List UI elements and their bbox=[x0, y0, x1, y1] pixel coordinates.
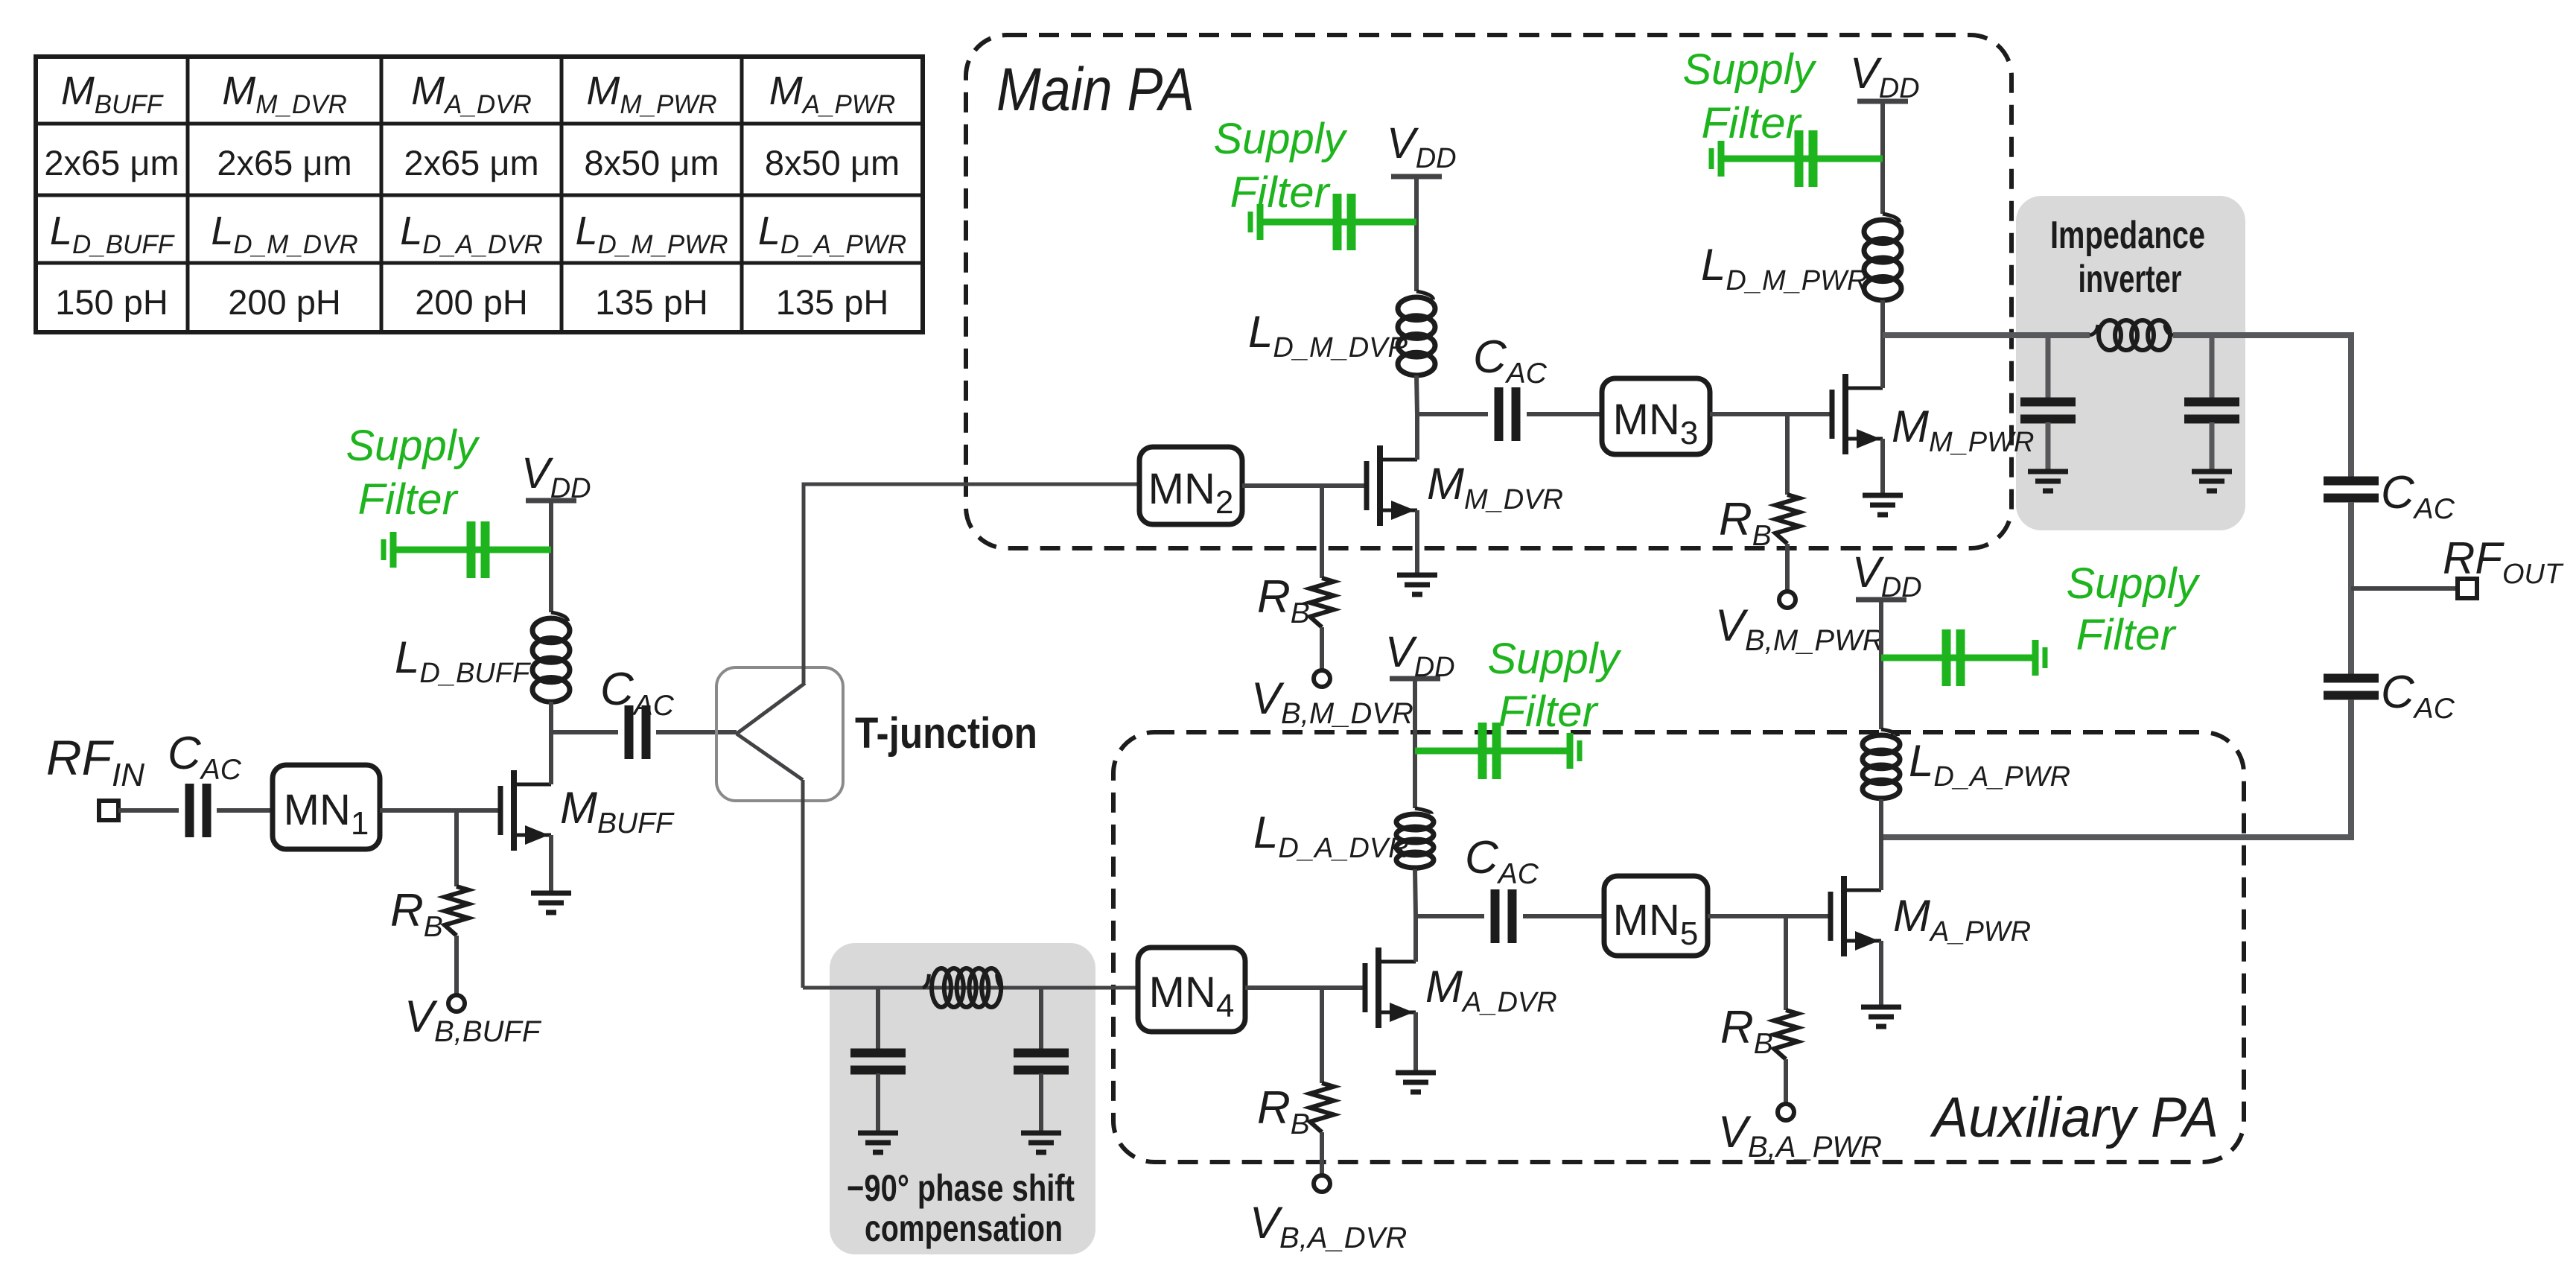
svg-text:RB: RB bbox=[1257, 1082, 1310, 1140]
svg-text:CAC: CAC bbox=[2381, 467, 2455, 525]
svg-text:200 pH: 200 pH bbox=[228, 282, 341, 322]
svg-text:T-junction: T-junction bbox=[855, 709, 1037, 758]
svg-text:Auxiliary PA: Auxiliary PA bbox=[1930, 1086, 2219, 1149]
svg-text:MA_PWR: MA_PWR bbox=[1893, 891, 2031, 948]
svg-text:Filter: Filter bbox=[358, 475, 459, 524]
svg-text:VB,A_PWR: VB,A_PWR bbox=[1718, 1107, 1882, 1164]
svg-text:VB,M_DVR: VB,M_DVR bbox=[1251, 673, 1413, 730]
svg-text:RB: RB bbox=[1719, 494, 1772, 552]
svg-text:200 pH: 200 pH bbox=[415, 282, 528, 322]
svg-text:VDD: VDD bbox=[1387, 119, 1457, 174]
svg-text:Supply: Supply bbox=[1214, 115, 1348, 163]
svg-text:Supply: Supply bbox=[346, 422, 480, 470]
svg-text:RB: RB bbox=[1720, 1002, 1773, 1060]
svg-text:8x50 μm: 8x50 μm bbox=[765, 143, 900, 182]
svg-text:LD_A_PWR: LD_A_PWR bbox=[1909, 736, 2070, 793]
svg-text:MBUFF: MBUFF bbox=[560, 783, 675, 839]
svg-text:RB: RB bbox=[390, 885, 443, 943]
svg-text:inverter: inverter bbox=[2079, 258, 2182, 301]
svg-text:MA_DVR: MA_DVR bbox=[1425, 962, 1557, 1018]
svg-text:Filter: Filter bbox=[1230, 168, 1332, 217]
svg-text:RFIN: RFIN bbox=[46, 730, 144, 793]
svg-text:−90° phase shift: −90° phase shift bbox=[847, 1167, 1075, 1209]
svg-text:135 pH: 135 pH bbox=[595, 282, 708, 322]
svg-text:8x50 μm: 8x50 μm bbox=[584, 143, 719, 182]
svg-text:VDD: VDD bbox=[521, 449, 591, 504]
svg-text:CAC: CAC bbox=[1473, 331, 1548, 390]
svg-text:LD_BUFF: LD_BUFF bbox=[395, 632, 531, 689]
svg-text:VB,BUFF: VB,BUFF bbox=[404, 991, 542, 1048]
svg-text:compensation: compensation bbox=[865, 1207, 1063, 1249]
svg-text:Filter: Filter bbox=[1498, 688, 1600, 736]
svg-text:VB,A_DVR: VB,A_DVR bbox=[1250, 1198, 1407, 1254]
svg-text:Supply: Supply bbox=[2067, 559, 2201, 608]
svg-text:VDD: VDD bbox=[1852, 548, 1922, 603]
svg-text:RB: RB bbox=[1257, 571, 1310, 629]
svg-text:VDD: VDD bbox=[1385, 628, 1455, 683]
svg-text:Supply: Supply bbox=[1488, 635, 1622, 683]
svg-text:Impedance: Impedance bbox=[2050, 214, 2205, 257]
svg-text:2x65 μm: 2x65 μm bbox=[217, 143, 352, 182]
svg-text:LD_M_DVR: LD_M_DVR bbox=[1248, 307, 1408, 364]
svg-text:Filter: Filter bbox=[2076, 611, 2178, 659]
svg-text:VB,M_PWR: VB,M_PWR bbox=[1715, 600, 1884, 657]
svg-text:Main PA: Main PA bbox=[996, 56, 1195, 124]
svg-text:CAC: CAC bbox=[1465, 832, 1539, 890]
svg-text:MM_DVR: MM_DVR bbox=[1427, 459, 1563, 515]
svg-text:LD_M_PWR: LD_M_PWR bbox=[1701, 240, 1867, 296]
svg-text:Filter: Filter bbox=[1702, 99, 1803, 147]
svg-text:135 pH: 135 pH bbox=[776, 282, 889, 322]
svg-text:CAC: CAC bbox=[600, 664, 675, 722]
svg-text:CAC: CAC bbox=[2381, 667, 2455, 725]
svg-text:LD_A_DVR: LD_A_DVR bbox=[1253, 807, 1409, 864]
svg-text:VDD: VDD bbox=[1850, 49, 1920, 104]
svg-text:CAC: CAC bbox=[168, 728, 242, 786]
svg-text:150 pH: 150 pH bbox=[55, 282, 168, 322]
svg-text:2x65 μm: 2x65 μm bbox=[44, 143, 179, 182]
svg-text:2x65 μm: 2x65 μm bbox=[404, 143, 538, 182]
svg-text:RFOUT: RFOUT bbox=[2443, 533, 2564, 590]
svg-text:Supply: Supply bbox=[1683, 45, 1817, 94]
